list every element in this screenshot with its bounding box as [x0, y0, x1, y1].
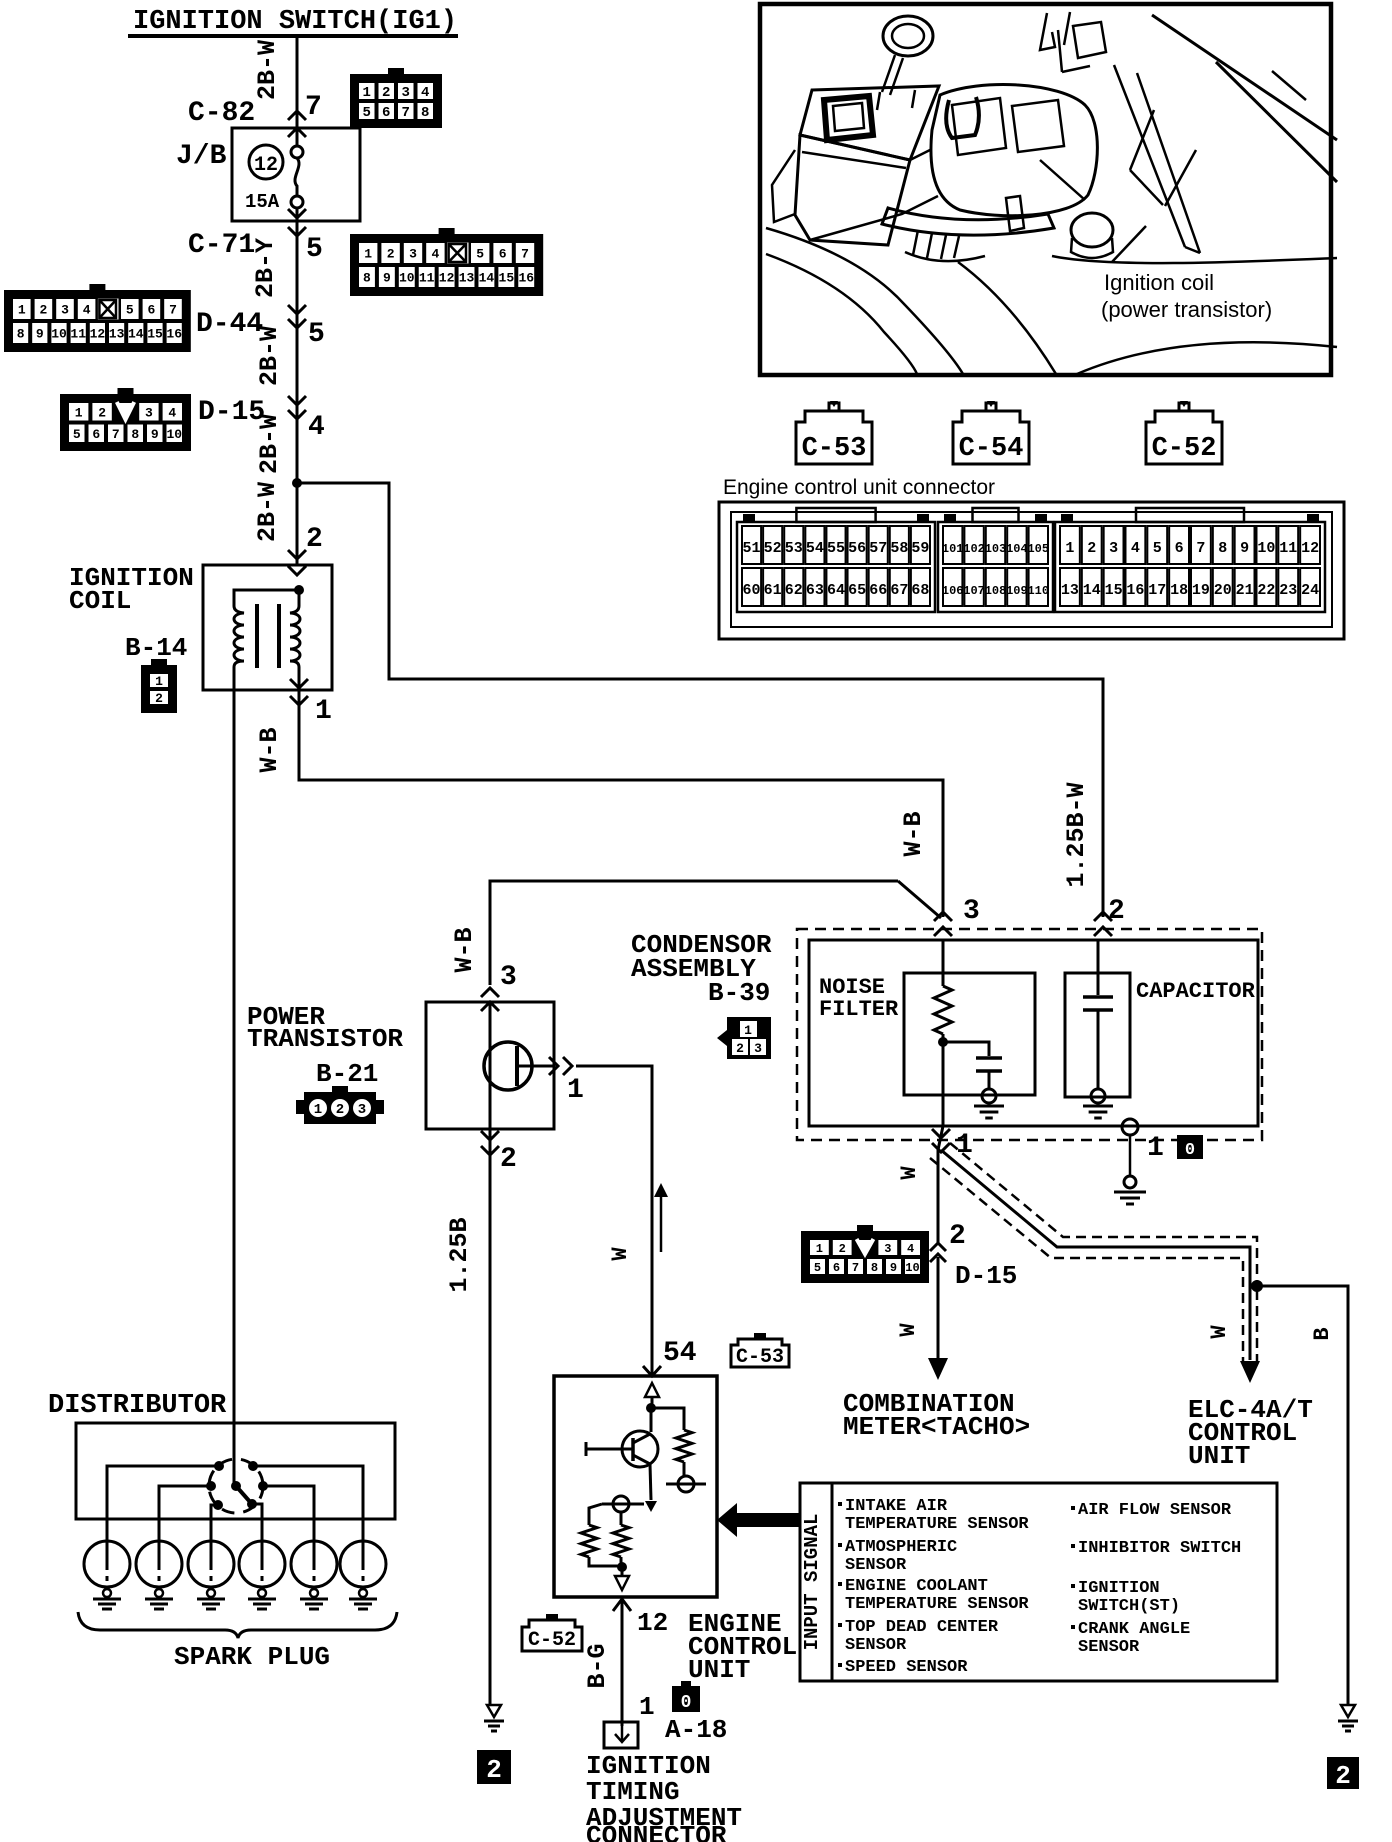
svg-text:7: 7: [402, 105, 410, 121]
svg-text:TRANSISTOR: TRANSISTOR: [247, 1024, 403, 1054]
svg-text:Engine control unit connector: Engine control unit connector: [723, 476, 995, 499]
svg-text:11: 11: [1279, 540, 1297, 557]
shielded cable shield (dashed): [930, 1158, 1243, 1362]
svg-text:19: 19: [1192, 582, 1210, 599]
svg-text:55: 55: [827, 540, 845, 557]
svg-text:2: 2: [1335, 1761, 1351, 1791]
svg-text:2: 2: [387, 247, 395, 262]
wire coil to distributor: [233, 667, 236, 1486]
svg-text:SENSOR: SENSOR: [1078, 1638, 1140, 1657]
svg-text:TOP DEAD CENTER: TOP DEAD CENTER: [845, 1618, 999, 1637]
svg-text:B: B: [1310, 1327, 1335, 1340]
svg-text:1.25B: 1.25B: [445, 1217, 474, 1292]
svg-text:2: 2: [1087, 540, 1096, 557]
junction node on 2B-W wire: [292, 478, 302, 488]
svg-text:7: 7: [852, 1261, 859, 1275]
svg-text:66: 66: [869, 582, 887, 599]
distributor box: [76, 1423, 395, 1519]
svg-text:1: 1: [1065, 540, 1074, 557]
svg-text:2: 2: [736, 1041, 744, 1056]
power transistor box B-21: [426, 1002, 554, 1129]
svg-text:2: 2: [486, 1755, 502, 1785]
condensor terminal arrows pin2: [1094, 912, 1112, 921]
signal direction arrow (up): [660, 1192, 663, 1252]
svg-text:56: 56: [848, 540, 866, 557]
svg-text:18: 18: [1170, 582, 1188, 599]
resistor R (noise filter): [934, 986, 952, 1034]
spark plug 1: [84, 1541, 130, 1587]
connector C-52 outline icon: [1146, 401, 1222, 464]
wire power transistor to ECU pin54: [576, 1066, 652, 1374]
svg-text:C-53: C-53: [802, 434, 867, 464]
connector B-21 pin diagram (3-pin): [296, 1086, 384, 1124]
condensor assembly dashed outline: [797, 929, 1262, 1140]
condensor terminal arrows pin3: [934, 912, 952, 921]
spark plug wire 4: [252, 1504, 262, 1542]
distributor rotor arm: [236, 1486, 251, 1503]
svg-text:2: 2: [839, 1242, 846, 1256]
connector D-15 pin diagram (10-pin): [60, 394, 191, 451]
svg-text:5: 5: [308, 319, 325, 350]
junction block J/B box: [232, 128, 360, 221]
page reference 2 (left): [477, 1750, 511, 1784]
svg-text:10: 10: [51, 327, 67, 342]
svg-text:15A: 15A: [245, 191, 280, 213]
distributor rotor dashed circle: [209, 1459, 263, 1513]
svg-text:9: 9: [383, 271, 391, 286]
svg-text:20: 20: [1214, 582, 1232, 599]
svg-text:2: 2: [500, 1144, 517, 1175]
svg-text:3: 3: [500, 962, 517, 993]
svg-text:110: 110: [1027, 584, 1049, 598]
svg-text:CONNECTOR: CONNECTOR: [586, 1821, 727, 1842]
svg-text:8: 8: [363, 271, 371, 286]
svg-text:24: 24: [1301, 582, 1319, 599]
svg-text:1: 1: [1147, 1133, 1164, 1164]
svg-text:7: 7: [305, 92, 322, 123]
svg-text:57: 57: [869, 540, 887, 557]
svg-text:3: 3: [61, 303, 69, 318]
svg-text:2: 2: [949, 1221, 966, 1252]
ignition coil core: [255, 604, 259, 668]
ELC control unit arrow: [1240, 1361, 1260, 1383]
wire W noise filter to D-15: [938, 1126, 943, 1244]
wire noise filter junction to capacitor: [942, 1034, 945, 1126]
ECU connector section C-53 pins 51-68: [737, 522, 935, 612]
ECU terminal circle right: [678, 1476, 694, 1492]
capacitor ground terminal: [1091, 1089, 1105, 1103]
spark plug 3: [188, 1541, 234, 1587]
ECU resistor to terminal: [683, 1462, 686, 1477]
svg-text:106: 106: [942, 584, 964, 598]
condensor ground: [1124, 1176, 1136, 1188]
connector D-15 terminal arrows: [288, 396, 306, 405]
svg-text:C-52: C-52: [1152, 434, 1217, 464]
ECU emitter wire: [650, 1432, 652, 1443]
svg-text:109: 109: [1006, 584, 1028, 598]
svg-text:103: 103: [985, 542, 1007, 556]
svg-text:UNIT: UNIT: [688, 1655, 750, 1685]
ECU connector section C-52 pins 1-24: [1055, 522, 1325, 612]
svg-text:54: 54: [806, 540, 824, 557]
wire 1.25B to ground: [489, 1129, 492, 1705]
connector C-82 pin diagram (8-pin): [350, 74, 442, 128]
svg-text:SPARK PLUG: SPARK PLUG: [174, 1642, 330, 1672]
svg-text:Ignition coil: Ignition coil: [1104, 270, 1214, 295]
svg-text:IGNITION SWITCH(IG1): IGNITION SWITCH(IG1): [133, 7, 457, 37]
wire B shield drain: [1257, 1286, 1348, 1705]
fuse number 12 circle: [249, 145, 283, 179]
svg-text:FILTER: FILTER: [819, 997, 899, 1022]
svg-text:METER<TACHO>: METER<TACHO>: [843, 1412, 1030, 1442]
svg-text:5: 5: [1153, 540, 1162, 557]
transistor Q1 symbol: [484, 1042, 532, 1090]
capacitor C1 (noise filter): [976, 1056, 1002, 1060]
connector C-54 outline icon: [953, 401, 1029, 464]
svg-text:2B-W: 2B-W: [253, 482, 282, 542]
J/B exit terminal arrows: [288, 209, 306, 218]
svg-text:9: 9: [1240, 540, 1249, 557]
connector C-82 terminal arrows: [288, 111, 306, 120]
power transistor collector-emitter wire: [489, 1002, 492, 1129]
spark plug wire 3: [211, 1505, 218, 1542]
wire B-G: [621, 1599, 624, 1726]
svg-text:3: 3: [358, 1102, 366, 1118]
svg-text:2B-Y: 2B-Y: [251, 238, 280, 298]
spark plug wire 1: [107, 1466, 219, 1542]
svg-text:14: 14: [479, 271, 495, 286]
capacitor box: [1065, 973, 1130, 1097]
svg-text:SENSOR: SENSOR: [845, 1556, 907, 1575]
svg-text:C-53: C-53: [736, 1346, 784, 1369]
ignition coil terminal arrows pin2: [288, 550, 306, 559]
svg-text:107: 107: [963, 584, 985, 598]
ECU internal node A: [646, 1403, 656, 1413]
svg-text:INPUT SIGNAL: INPUT SIGNAL: [801, 1514, 823, 1651]
svg-text:INHIBITOR SWITCH: INHIBITOR SWITCH: [1078, 1539, 1241, 1558]
svg-text:14: 14: [128, 327, 144, 342]
distributor rotor contacts: [231, 1481, 241, 1491]
spark plug brace: [78, 1612, 397, 1638]
svg-text:1: 1: [816, 1242, 823, 1256]
svg-text:10: 10: [1257, 540, 1275, 557]
svg-text:TEMPERATURE SENSOR: TEMPERATURE SENSOR: [845, 1595, 1029, 1614]
svg-text:53: 53: [785, 540, 803, 557]
ignition coil box: [203, 565, 332, 690]
svg-text:W-B: W-B: [255, 727, 284, 772]
svg-text:UNIT: UNIT: [1188, 1441, 1250, 1471]
svg-text:7: 7: [1196, 540, 1205, 557]
svg-text:15: 15: [147, 327, 163, 342]
svg-text:2: 2: [39, 303, 47, 318]
input signal divider: [831, 1483, 834, 1681]
svg-text:4: 4: [421, 85, 429, 101]
wire 2B-W ignition switch feed: [296, 36, 299, 146]
svg-text:CAPACITOR: CAPACITOR: [1136, 979, 1256, 1004]
svg-text:2: 2: [306, 524, 323, 555]
svg-text:65: 65: [848, 582, 866, 599]
svg-text:INTAKE AIR: INTAKE AIR: [845, 1497, 948, 1516]
svg-text:15: 15: [1105, 582, 1123, 599]
svg-text:2B-W: 2B-W: [253, 40, 282, 100]
svg-text:10: 10: [166, 427, 182, 442]
svg-text:W: W: [1207, 1325, 1232, 1339]
svg-text:22: 22: [1257, 582, 1275, 599]
svg-text:9: 9: [151, 427, 159, 442]
wire 2B-W branch to noise-filter capacitor: [297, 483, 1103, 917]
ECU terminal Y pin12: [613, 1599, 631, 1611]
power transistor terminal arrows pin3: [481, 988, 499, 997]
connector B-14 pin diagram (2-pin): [141, 665, 177, 713]
svg-text:4: 4: [83, 303, 91, 318]
ECU terminal Y pin54: [643, 1366, 661, 1376]
input signal arrow to ECU: [737, 1513, 801, 1527]
svg-text:54: 54: [663, 1338, 697, 1369]
svg-text:SWITCH(ST): SWITCH(ST): [1078, 1597, 1180, 1616]
svg-text:3: 3: [402, 85, 410, 101]
svg-text:2B-W: 2B-W: [255, 326, 284, 386]
svg-text:4: 4: [1131, 540, 1140, 557]
svg-text:23: 23: [1279, 582, 1297, 599]
resistor R2 (ECU): [620, 1512, 623, 1525]
svg-text:C-71: C-71: [188, 230, 255, 261]
resistor R3 (ECU): [589, 1504, 602, 1525]
svg-text:102: 102: [963, 542, 985, 556]
svg-text:51: 51: [743, 540, 761, 557]
svg-text:101: 101: [942, 542, 964, 556]
svg-text:0: 0: [681, 1693, 692, 1713]
resistor R1 (ECU): [676, 1430, 692, 1462]
connector C-53 icon: [731, 1333, 789, 1369]
connector D-44 terminal arrows: [288, 305, 306, 314]
svg-text:6: 6: [92, 427, 100, 442]
svg-text:9: 9: [36, 327, 44, 342]
spark plug wire 5: [263, 1486, 314, 1542]
ground id 0 box (A-18): [672, 1686, 700, 1712]
svg-text:63: 63: [806, 582, 824, 599]
connector C-71 pin diagram (16-pin): [350, 234, 543, 296]
svg-text:W: W: [608, 1247, 633, 1261]
svg-text:7: 7: [521, 247, 529, 262]
svg-text:6: 6: [147, 303, 155, 318]
svg-text:10: 10: [905, 1261, 919, 1275]
svg-text:16: 16: [518, 271, 534, 286]
engine control unit box: [554, 1376, 717, 1597]
svg-text:6: 6: [833, 1261, 840, 1275]
svg-text:IGNITION: IGNITION: [1078, 1579, 1160, 1598]
wire 2B-Y J/B to C-71/D-44: [296, 208, 299, 565]
svg-text:105: 105: [1027, 542, 1049, 556]
svg-text:12: 12: [254, 154, 278, 177]
connector B-39 pin diagram (3-pin): [717, 1017, 771, 1059]
ignition coil terminal arrows pin1: [290, 679, 308, 688]
svg-text:3: 3: [145, 405, 153, 420]
svg-text:67: 67: [890, 582, 908, 599]
wire into noise filter: [942, 940, 945, 986]
svg-text:7: 7: [169, 303, 177, 318]
svg-text:1: 1: [18, 303, 26, 318]
condensor terminal arrows pin1: [932, 1129, 950, 1138]
svg-text:2: 2: [98, 405, 106, 420]
svg-text:11: 11: [70, 327, 86, 342]
condensor case ground terminal: [1122, 1119, 1138, 1135]
svg-text:1: 1: [314, 1102, 322, 1118]
svg-text:11: 11: [419, 271, 435, 286]
power transistor terminal arrows pin2: [481, 1131, 499, 1140]
transistor Q2 (ECU): [650, 1408, 653, 1432]
svg-text:58: 58: [890, 540, 908, 557]
svg-text:104: 104: [1006, 542, 1028, 556]
svg-text:6: 6: [1175, 540, 1184, 557]
svg-text:6: 6: [382, 105, 390, 121]
svg-text:8: 8: [1218, 540, 1227, 557]
svg-text:1: 1: [364, 247, 372, 262]
condensor assembly box: [809, 940, 1258, 1126]
page reference 2 (right): [1327, 1757, 1359, 1789]
svg-text:21: 21: [1236, 582, 1254, 599]
svg-text:5: 5: [306, 234, 323, 265]
svg-text:B-21: B-21: [316, 1059, 378, 1089]
connector C-53 outline icon: [796, 401, 872, 464]
svg-text:C-82: C-82: [188, 98, 255, 129]
svg-text:1: 1: [639, 1692, 655, 1722]
connector C-52 icon: [522, 1614, 582, 1652]
svg-text:8: 8: [17, 327, 25, 342]
svg-text:5: 5: [476, 247, 484, 262]
svg-text:1: 1: [567, 1075, 584, 1106]
ECU terminal circle left: [613, 1496, 629, 1512]
noise filter inner box: [904, 973, 1035, 1095]
svg-text:8: 8: [421, 105, 429, 121]
svg-text:3: 3: [884, 1242, 891, 1256]
svg-text:4: 4: [431, 247, 439, 262]
svg-text:1: 1: [155, 674, 163, 689]
capacitor C2 symbol: [1097, 940, 1100, 995]
svg-text:14: 14: [1083, 582, 1101, 599]
svg-text:1: 1: [315, 696, 332, 727]
ECU connector section C-54 pins 101-110: [938, 522, 1053, 612]
ECU pull-up resistor branch: [651, 1408, 684, 1430]
svg-text:DISTRIBUTOR: DISTRIBUTOR: [48, 1391, 227, 1421]
engine compartment illustration: [760, 4, 1331, 375]
svg-text:0: 0: [1185, 1141, 1195, 1160]
ground id 0 box: [1177, 1135, 1203, 1159]
svg-text:ENGINE COOLANT: ENGINE COOLANT: [845, 1577, 988, 1596]
input signal box: [800, 1483, 1277, 1681]
svg-text:B-G: B-G: [583, 1643, 612, 1688]
svg-text:60: 60: [743, 582, 761, 599]
svg-text:12: 12: [1301, 540, 1319, 557]
connector D-15 (lower) pin diagram (10-pin): [801, 1231, 929, 1283]
svg-text:5: 5: [126, 303, 134, 318]
spark plug 6: [340, 1541, 386, 1587]
ground (power transistor 1.25B): [487, 1705, 501, 1717]
svg-text:108: 108: [985, 584, 1007, 598]
power transistor terminal arrows pin1: [549, 1057, 558, 1075]
wire W-B coil to noise filter: [299, 690, 943, 917]
svg-text:B-14: B-14: [125, 633, 187, 663]
svg-text:1: 1: [75, 405, 83, 420]
shielded cable core wire: [941, 1150, 1250, 1360]
svg-text:W: W: [897, 1166, 922, 1180]
svg-text:10: 10: [399, 271, 415, 286]
connector D-44 pin diagram (16-pin): [4, 290, 191, 352]
svg-text:1: 1: [363, 85, 371, 101]
svg-text:7: 7: [112, 427, 120, 442]
svg-text:5: 5: [814, 1261, 821, 1275]
svg-text:B-39: B-39: [708, 978, 770, 1008]
spark plug 5: [291, 1541, 337, 1587]
svg-text:AIR FLOW SENSOR: AIR FLOW SENSOR: [1078, 1501, 1232, 1520]
svg-text:W-B: W-B: [899, 811, 928, 856]
svg-text:6: 6: [499, 247, 507, 262]
svg-text:J/B: J/B: [176, 141, 227, 172]
node shield to B wire: [1251, 1280, 1263, 1292]
svg-text:1.25B-W: 1.25B-W: [1062, 782, 1091, 887]
svg-text:12: 12: [439, 271, 455, 286]
ECU connector outer box: [719, 502, 1344, 639]
svg-text:3: 3: [409, 247, 417, 262]
svg-text:59: 59: [911, 540, 929, 557]
svg-text:2: 2: [336, 1102, 344, 1118]
fuse F12 symbol: [291, 146, 303, 158]
combination meter arrow: [928, 1358, 948, 1380]
svg-text:3: 3: [1109, 540, 1118, 557]
svg-text:4: 4: [308, 412, 325, 443]
svg-text:TEMPERATURE SENSOR: TEMPERATURE SENSOR: [845, 1515, 1029, 1534]
svg-text:15: 15: [499, 271, 515, 286]
ignition timing adjustment connector symbol: [604, 1722, 638, 1748]
svg-text:17: 17: [1148, 582, 1166, 599]
svg-text:2: 2: [382, 85, 390, 101]
svg-text:8: 8: [131, 427, 139, 442]
svg-text:12: 12: [90, 327, 106, 342]
svg-text:A-18: A-18: [665, 1715, 727, 1745]
ECU connector inner box: [731, 512, 1332, 627]
svg-text:5: 5: [363, 105, 371, 121]
svg-text:SPEED SENSOR: SPEED SENSOR: [845, 1658, 968, 1677]
svg-text:(power transistor): (power transistor): [1101, 297, 1272, 322]
svg-text:4: 4: [907, 1242, 914, 1256]
ignition coil internal node: [294, 585, 304, 595]
svg-text:1: 1: [744, 1023, 752, 1038]
svg-text:13: 13: [109, 327, 125, 342]
svg-text:13: 13: [1061, 582, 1079, 599]
spark plug 4: [239, 1541, 285, 1587]
svg-text:2: 2: [155, 691, 163, 706]
ignition coil secondary winding: [298, 590, 301, 606]
svg-text:C-54: C-54: [959, 434, 1024, 464]
svg-text:5: 5: [73, 427, 81, 442]
svg-text:W: W: [896, 1323, 921, 1337]
svg-text:13: 13: [459, 271, 475, 286]
svg-text:3: 3: [754, 1041, 762, 1056]
svg-text:D-44: D-44: [196, 309, 263, 340]
svg-text:ATMOSPHERIC: ATMOSPHERIC: [845, 1538, 957, 1557]
noise filter internal node: [938, 1037, 948, 1047]
svg-text:16: 16: [1126, 582, 1144, 599]
svg-text:C-52: C-52: [528, 1629, 576, 1652]
spark plug 2: [136, 1541, 182, 1587]
svg-text:9: 9: [890, 1261, 897, 1275]
wire W D-15 to combination meter: [937, 1257, 940, 1358]
svg-text:16: 16: [166, 327, 182, 342]
svg-text:4: 4: [168, 405, 176, 420]
svg-text:COIL: COIL: [69, 586, 131, 616]
svg-text:3: 3: [963, 896, 980, 927]
noise filter ground terminal: [982, 1089, 996, 1103]
svg-text:CRANK ANGLE: CRANK ANGLE: [1078, 1620, 1190, 1639]
